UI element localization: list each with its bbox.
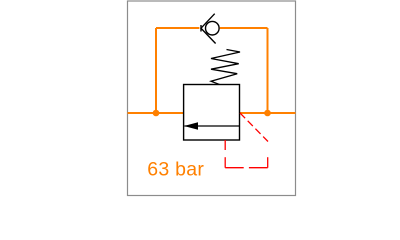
svg-text:63 bar: 63 bar [147, 158, 204, 180]
